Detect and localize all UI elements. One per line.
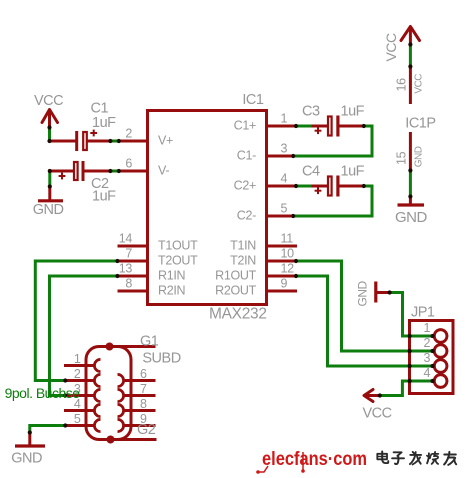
svg-text:7: 7 [140, 382, 147, 396]
svg-text:R1OUT: R1OUT [215, 269, 257, 283]
svg-text:SUBD: SUBD [142, 351, 180, 367]
svg-text:MAX232: MAX232 [209, 306, 267, 323]
svg-text:R2IN: R2IN [158, 284, 186, 298]
svg-text:14: 14 [119, 232, 133, 246]
svg-text:16: 16 [395, 78, 409, 92]
svg-text:9: 9 [281, 277, 288, 291]
svg-text:elecfans·com: elecfans·com [262, 448, 367, 470]
svg-text:4: 4 [424, 366, 431, 380]
svg-text:T2IN: T2IN [230, 254, 256, 268]
svg-text:15: 15 [395, 151, 409, 165]
svg-text:6: 6 [125, 157, 132, 171]
svg-text:C1+: C1+ [234, 119, 256, 133]
svg-text:1uF: 1uF [341, 104, 365, 120]
svg-text:GND: GND [414, 146, 425, 167]
svg-text:T2OUT: T2OUT [158, 254, 198, 268]
svg-text:T1OUT: T1OUT [158, 239, 198, 253]
svg-text:C2-: C2- [237, 209, 256, 223]
svg-text:12: 12 [281, 262, 295, 276]
svg-text:GND: GND [395, 209, 428, 226]
svg-text:10: 10 [281, 247, 295, 261]
svg-text:1uF: 1uF [92, 115, 116, 131]
svg-text:1uF: 1uF [92, 189, 116, 205]
svg-text:3: 3 [424, 351, 431, 365]
svg-text:9: 9 [140, 412, 147, 426]
svg-text:1: 1 [281, 112, 288, 126]
svg-text:4: 4 [281, 172, 288, 186]
svg-text:GND: GND [11, 451, 42, 467]
svg-text:2: 2 [125, 127, 132, 141]
svg-text:2: 2 [424, 336, 431, 350]
svg-text:VCC: VCC [363, 406, 392, 422]
svg-text:1: 1 [74, 352, 81, 366]
svg-text:5: 5 [281, 202, 288, 216]
svg-text:R2OUT: R2OUT [215, 284, 257, 298]
svg-text:8: 8 [125, 277, 132, 291]
svg-text:IC1: IC1 [242, 92, 264, 108]
svg-text:T1IN: T1IN [230, 239, 256, 253]
svg-text:11: 11 [281, 232, 294, 246]
svg-text:C2+: C2+ [234, 179, 256, 193]
svg-text:7: 7 [125, 247, 132, 261]
svg-text:2: 2 [74, 367, 81, 381]
svg-text:GND: GND [33, 202, 64, 218]
svg-text:R1IN: R1IN [158, 269, 186, 283]
svg-text:GND: GND [356, 281, 370, 307]
svg-text:JP1: JP1 [411, 305, 435, 321]
svg-text:V+: V+ [158, 134, 173, 148]
svg-text:9pol. Buchse: 9pol. Buchse [5, 385, 81, 401]
svg-text:C4: C4 [302, 164, 320, 180]
svg-text:IC1P: IC1P [405, 116, 435, 132]
svg-text:1: 1 [424, 321, 431, 335]
svg-text:G1: G1 [140, 334, 159, 350]
svg-text:C3: C3 [302, 104, 320, 120]
svg-text:1uF: 1uF [341, 164, 365, 180]
svg-text:6: 6 [140, 367, 147, 381]
svg-text:C1-: C1- [237, 149, 256, 163]
svg-text:VCC: VCC [383, 33, 399, 61]
svg-text:5: 5 [74, 412, 81, 426]
svg-text:8: 8 [140, 397, 147, 411]
svg-text:VCC: VCC [34, 93, 63, 109]
svg-text:3: 3 [281, 142, 288, 156]
svg-text:13: 13 [119, 262, 133, 276]
svg-text:VCC: VCC [414, 74, 425, 94]
svg-text:V-: V- [158, 164, 169, 178]
